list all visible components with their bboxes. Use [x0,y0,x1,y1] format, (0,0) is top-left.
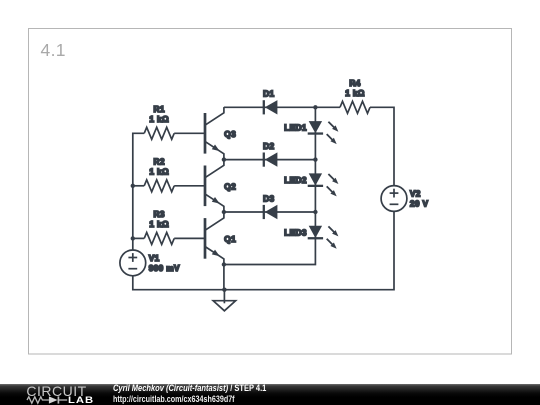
wire left rail (R1 row down to V1 plus) [133,133,144,250]
LED LED3 (pointing down, light arrows) [284,226,338,249]
wire Q1 emitter junction down to bottom rail [223,265,225,290]
diode D1 (pointing left) [263,89,277,115]
wire row G (Q1 emitter to LED3 bottom) [224,212,316,265]
junction dots [131,105,318,292]
wire LED rail upper (row A to row C) [314,107,316,159]
footer credit line [113,383,266,394]
wire top rail row A (Q3 collector to R4 to V2 corner) [224,106,340,108]
wire row E (Q2 emitter / Q1 collector to D3 to LED rail) [224,211,316,213]
voltage source V2 20 V [381,186,428,212]
LED LED1 (pointing down, light arrows) [284,121,338,144]
ground symbol [213,290,235,311]
transistor Q3 (NPN) [205,107,236,159]
transistor Q2 (NPN) [205,160,236,212]
wire R3 leads [133,237,144,239]
diode D2 (pointing left) [263,141,277,167]
CircuitLab logo [26,383,86,399]
voltage source V1 900 mV [120,250,180,276]
transistor Q1 (NPN) [205,212,236,264]
canvas frame [29,29,512,355]
wire row C (Q3 emitter / Q2 collector to D2 to LED rail) [224,159,316,161]
resistor R2 1 kOhm [144,157,174,192]
wire bottom rail (V1 minus to V2 minus) [133,211,394,289]
resistor R3 1 kOhm [144,209,174,244]
footer bar [0,384,540,405]
resistor R4 1 kOhm [340,78,370,113]
LED LED2 (pointing down, light arrows) [284,173,338,196]
diode D3 (pointing left) [263,193,277,219]
logo resistor-diode glyph [27,396,67,403]
resistor R1 1 kOhm [144,104,174,139]
footer url line [113,394,235,405]
wire R1 leads [174,132,205,134]
wire R2 leads [133,185,144,187]
